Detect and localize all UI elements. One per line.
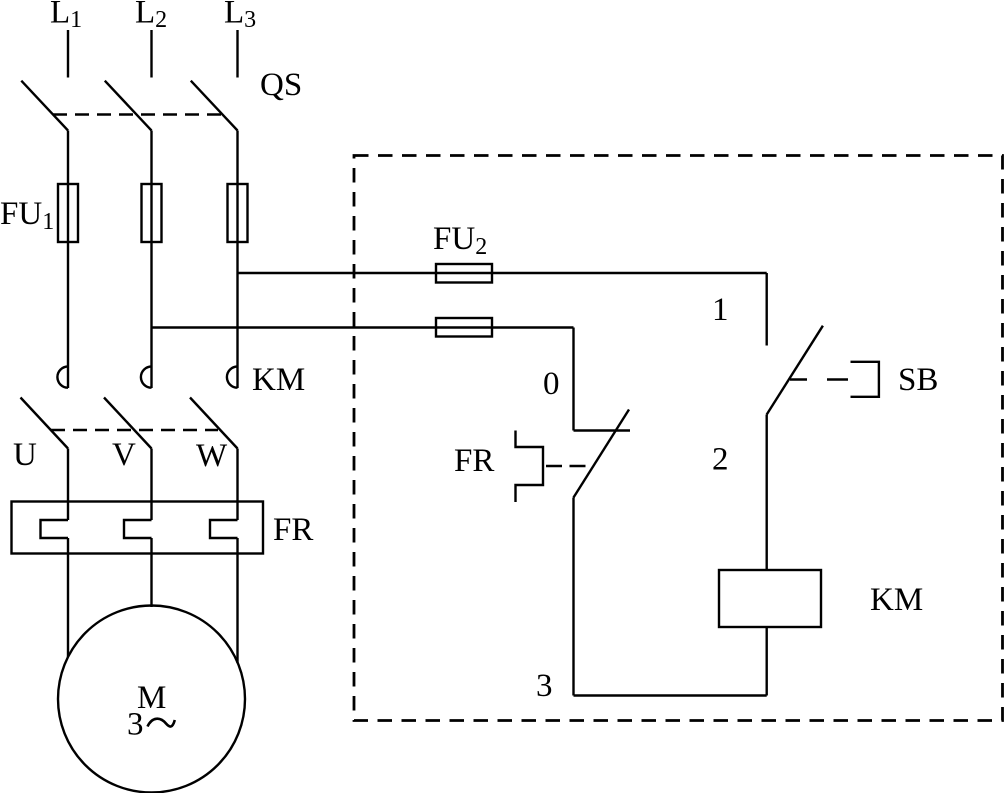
motor M label [137, 680, 166, 716]
fuse FU1 pole 1 body [58, 184, 78, 242]
wire W heater to motor [236, 538, 238, 663]
pushbutton SB plunger [851, 362, 879, 397]
contactor coil KM body [719, 570, 821, 627]
pushbutton SB label [898, 362, 938, 398]
svg-text:V: V [112, 437, 136, 473]
wire SB branch lower to coil [766, 415, 768, 571]
switch QS pole 3 blade [191, 81, 238, 131]
thermal relay FR actuator hook [516, 431, 544, 503]
svg-text:0: 0 [543, 366, 560, 402]
fuse FU2 label [433, 221, 487, 260]
svg-text:L2: L2 [135, 0, 167, 33]
wire L1 top stub [67, 30, 69, 78]
node U label [13, 437, 37, 473]
contactor KM main contact 2 arc [141, 367, 152, 388]
svg-text:1: 1 [712, 292, 729, 328]
motor 3-phase label [127, 707, 144, 743]
svg-text:KM: KM [870, 582, 923, 618]
control circuit dashed enclosure [354, 156, 1003, 721]
thermal relay FR linkage (dashed) [546, 465, 589, 467]
fuse FU1 label [0, 196, 54, 235]
wire phase1 QS to KM contact [67, 131, 69, 389]
node 2 label [712, 442, 729, 478]
contactor KM contact 2 blade [104, 398, 152, 449]
contactor KM main contact 1 arc [57, 367, 68, 388]
contactor KM main contacts label [252, 362, 305, 398]
thermal relay FR heater element 1 [41, 520, 69, 538]
pushbutton SB linkage (dashed) [790, 378, 807, 380]
svg-text:FR: FR [273, 512, 313, 548]
node 0 label [543, 366, 560, 402]
thermal relay FR contact label [454, 443, 494, 479]
node L3 label [224, 0, 256, 33]
fuse FU1 pole 2 body [142, 184, 162, 242]
wire coil to bottom rail [766, 627, 768, 696]
wire SB branch upper [766, 273, 768, 346]
contactor coil KM label [870, 582, 923, 618]
contactor KM contact 3 blade [190, 398, 238, 449]
node 1 label [712, 292, 729, 328]
wire FR branch upper [572, 328, 574, 431]
svg-text:KM: KM [252, 362, 305, 398]
pushbutton SB blade [767, 326, 823, 415]
svg-text:L3: L3 [224, 0, 256, 33]
thermal relay FR NC contact blade [574, 410, 630, 498]
thermal relay FR label [273, 512, 313, 548]
thermal relay FR heater box [12, 502, 264, 554]
wire U blade to heater [67, 449, 69, 521]
wire U heater to motor [67, 538, 69, 657]
svg-text:2: 2 [712, 442, 729, 478]
contactor KM contact 1 blade [21, 398, 69, 449]
svg-text:FU2: FU2 [433, 221, 487, 260]
wire V heater to motor [150, 538, 152, 607]
svg-text:U: U [13, 437, 37, 473]
node 3 label [536, 668, 553, 704]
fuse FU2 lower body [436, 318, 492, 337]
svg-text:3: 3 [127, 707, 144, 743]
wire phase3 QS to KM contact [236, 131, 238, 389]
svg-text:SB: SB [898, 362, 938, 398]
wire L3 top stub [236, 30, 238, 78]
thermal relay FR heater element 3 [210, 520, 238, 538]
wire FR branch lower [572, 498, 574, 696]
node L2 label [135, 0, 167, 33]
wire phase2 QS to KM contact [150, 131, 152, 389]
svg-text:FR: FR [454, 443, 494, 479]
wire L2 top stub [150, 30, 152, 78]
switch QS pole 1 blade [21, 81, 68, 131]
wire FR contact fixed terminal [574, 429, 631, 431]
node W label [196, 438, 228, 474]
switch QS label [260, 67, 302, 103]
svg-text:L1: L1 [50, 0, 82, 33]
wire V blade to heater [150, 449, 152, 521]
wire line B: phase2 to FR branch [152, 326, 574, 328]
svg-text:FU1: FU1 [0, 196, 54, 235]
switch QS linkage (dashed) [53, 113, 223, 115]
thermal relay FR heater element 2 [124, 520, 152, 538]
svg-text:3: 3 [536, 668, 553, 704]
switch QS pole 2 blade [105, 81, 152, 131]
contactor KM linkage (dashed) [51, 429, 218, 431]
node V label [112, 437, 136, 473]
fuse FU2 upper body [436, 264, 492, 283]
wire W blade to heater [236, 449, 238, 521]
motor tilde mark [148, 719, 175, 727]
motor M body circle [58, 606, 245, 793]
wire line A: phase3 to SB branch [238, 272, 767, 274]
svg-text:W: W [196, 438, 228, 474]
node L1 label [50, 0, 82, 33]
fuse FU1 pole 3 body [228, 184, 248, 242]
contactor KM main contact 3 arc [227, 367, 238, 388]
wire bottom rail [574, 694, 767, 696]
svg-text:QS: QS [260, 67, 302, 103]
